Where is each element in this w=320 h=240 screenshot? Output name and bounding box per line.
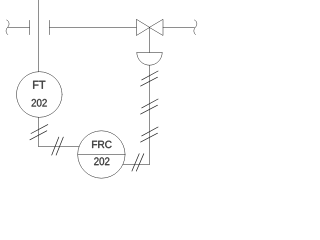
- valve stem: [149, 28, 151, 53]
- pneumatic hash on elbow-FRC line: [52, 137, 64, 155]
- orifice flange tick right: [49, 20, 51, 34]
- pneumatic hash on FT drop line: [30, 125, 48, 140]
- control valve body left triangle: [136, 20, 149, 36]
- pneumatic hash pair 3 on riser: [141, 127, 159, 142]
- orifice flange tick left: [29, 20, 31, 34]
- process pipe left segment: [8, 27, 30, 29]
- process pipe right segment: [163, 27, 195, 29]
- valve actuator diaphragm dome: [137, 53, 162, 66]
- pneumatic hash on FRC-valve line: [132, 154, 144, 171]
- pneumatic hash pair 2 on riser: [141, 99, 159, 114]
- label FRC: [92, 141, 111, 148]
- signal line FT down: [38, 117, 40, 146]
- pneumatic hash pair 1 on riser: [141, 71, 159, 86]
- control valve body right triangle: [150, 20, 164, 36]
- signal line riser to valve: [149, 65, 151, 164]
- pipe break symbol right: [194, 20, 197, 35]
- signal line FRC to valve elbow: [123, 164, 150, 166]
- panel-mount chord of FRC202: [78, 154, 125, 156]
- flow transmitter FT202 bubble: [17, 72, 63, 118]
- pipe break symbol left: [6, 20, 9, 35]
- label FT: [33, 81, 45, 89]
- label 202 of FRC: [94, 157, 109, 165]
- signal line elbow to FRC: [39, 146, 80, 148]
- impulse line to FT: [38, 0, 40, 72]
- label 202 of FT: [32, 99, 47, 107]
- process pipe middle segment: [50, 27, 137, 29]
- controller FRC202 bubble: [78, 131, 125, 178]
